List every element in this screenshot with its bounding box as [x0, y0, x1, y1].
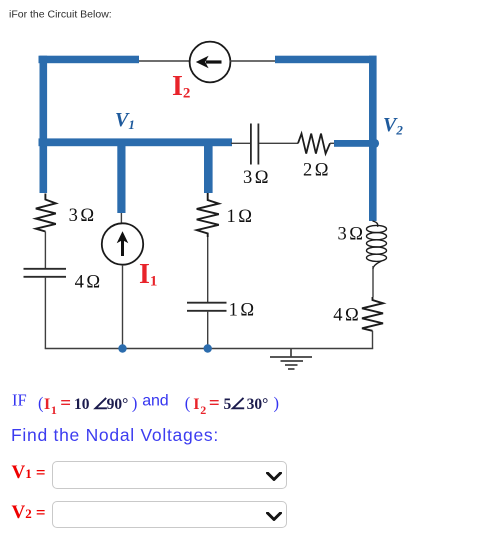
label 3-ohm left resistor value — [69, 206, 95, 226]
wire: 2-ohm resistor to V2 node — [330, 142, 337, 144]
svg-text:2Ω: 2Ω — [303, 161, 329, 181]
svg-text:I1: I1 — [139, 259, 157, 290]
current source I2 — [190, 42, 231, 83]
svg-text:V1=: V1= — [12, 462, 46, 483]
label V2 — [383, 114, 403, 138]
svg-text:3Ω: 3Ω — [338, 225, 364, 245]
resistor 3-ohm (left branch) — [36, 194, 56, 232]
svg-text:30°: 30° — [247, 396, 269, 413]
wire: 1-ohm resistor to 1-ohm capacitor — [207, 237, 209, 303]
inductor 3-ohm (right branch) — [367, 221, 387, 269]
svg-text:Find the Nodal Voltages:: Find the Nodal Voltages: — [11, 425, 219, 445]
svg-text:I2: I2 — [172, 71, 190, 102]
label 3-ohm inductor value — [338, 225, 364, 245]
svg-text:1Ω: 1Ω — [229, 301, 255, 321]
junction: 1-ohm branch bottom node dot — [204, 344, 212, 352]
label V1 — [115, 109, 135, 132]
prompt: Find the Nodal Voltages: — [11, 425, 219, 445]
wire: bottom ground rail — [45, 348, 374, 350]
label 1-ohm capacitor value — [229, 301, 255, 321]
wire: 4-ohm resistor to bottom rail — [372, 331, 374, 349]
wire: thin lead from I2 to top-right wire — [230, 60, 277, 62]
svg-text:V1: V1 — [115, 109, 135, 132]
svg-text:V2: V2 — [383, 114, 403, 138]
wire: node V1 bus horizontal thick blue — [39, 138, 233, 146]
wire: 1-ohm branch stub thick blue — [204, 146, 213, 193]
wire: bus to 3-ohm capacitor — [231, 142, 250, 144]
wire: I1 to bottom rail — [122, 265, 124, 349]
answer label V1 = — [12, 462, 46, 483]
svg-text:5: 5 — [224, 396, 232, 413]
wire: V2 horizontal thick blue — [334, 140, 377, 147]
svg-text:4Ω: 4Ω — [333, 306, 359, 326]
svg-text:90°: 90° — [107, 396, 129, 413]
wire: 3-ohm capacitor to 2-ohm resistor — [259, 142, 298, 144]
resistor 2-ohm (horizontal) — [298, 134, 330, 154]
wire: I1 stub to current source — [120, 213, 122, 225]
label 4-ohm right resistor value — [333, 306, 359, 326]
capacitor 1-ohm (middle branch) — [187, 303, 227, 311]
capacitor 3-ohm (top middle) — [251, 124, 259, 165]
svg-text:and: and — [142, 393, 168, 410]
wire: left vertical thick blue — [40, 56, 48, 193]
svg-text:10: 10 — [74, 396, 90, 413]
resistor 4-ohm (right branch) — [362, 297, 383, 331]
label 1-ohm resistor value — [227, 207, 253, 227]
svg-text:3Ω: 3Ω — [243, 168, 269, 188]
current source I1 — [102, 223, 143, 264]
svg-text:V2=: V2= — [12, 502, 46, 523]
junction: I1 bottom node dot — [118, 344, 126, 352]
select box V2 — [52, 501, 287, 528]
svg-text:=: = — [209, 393, 220, 414]
wire: I1 branch stub thick blue — [117, 146, 125, 213]
svg-text:): ) — [274, 394, 280, 413]
junction: V2 node dot — [370, 139, 379, 148]
label 4-ohm capacitor value — [75, 273, 101, 293]
svg-text:iFor the Circuit Below:: iFor the Circuit Below: — [9, 9, 112, 21]
resistor 1-ohm (middle branch) — [197, 193, 219, 237]
answer label V2 = — [12, 502, 46, 523]
wire: 3-ohm resistor to 4-ohm capacitor — [44, 232, 46, 269]
wire: thin lead from top-left wire to I2 — [139, 60, 192, 62]
svg-text:1Ω: 1Ω — [227, 207, 253, 227]
svg-text:I2: I2 — [193, 396, 206, 417]
capacitor 4-ohm (left branch) — [24, 269, 67, 277]
question line: IF ( I1 = 10 angle 90deg ) and ( I2 = 5 angle 30deg ) — [12, 391, 279, 418]
svg-text:=: = — [60, 393, 71, 414]
svg-text:): ) — [132, 394, 138, 413]
title text — [9, 9, 112, 21]
wire: right vertical thick blue — [369, 56, 377, 221]
svg-text:3Ω: 3Ω — [69, 206, 95, 226]
label I1 — [139, 259, 157, 290]
select box V1 — [52, 461, 287, 489]
label 2-ohm resistor value — [303, 161, 329, 181]
svg-text:(: ( — [185, 394, 191, 413]
wire: inductor to 4-ohm resistor — [372, 266, 374, 297]
wire: 4-ohm capacitor to bottom rail — [44, 277, 46, 349]
svg-text:IF: IF — [12, 391, 27, 410]
svg-text:(: ( — [38, 394, 44, 413]
svg-text:4Ω: 4Ω — [75, 273, 101, 293]
svg-text:I1: I1 — [44, 396, 57, 417]
wire: 1-ohm capacitor to bottom rail — [207, 311, 209, 349]
ground — [270, 349, 312, 370]
wire: top-right horizontal thick blue — [275, 56, 377, 64]
label I2 — [172, 71, 190, 102]
label 3-ohm capacitor value — [243, 168, 269, 188]
wire: top-left horizontal thick blue — [39, 56, 140, 64]
